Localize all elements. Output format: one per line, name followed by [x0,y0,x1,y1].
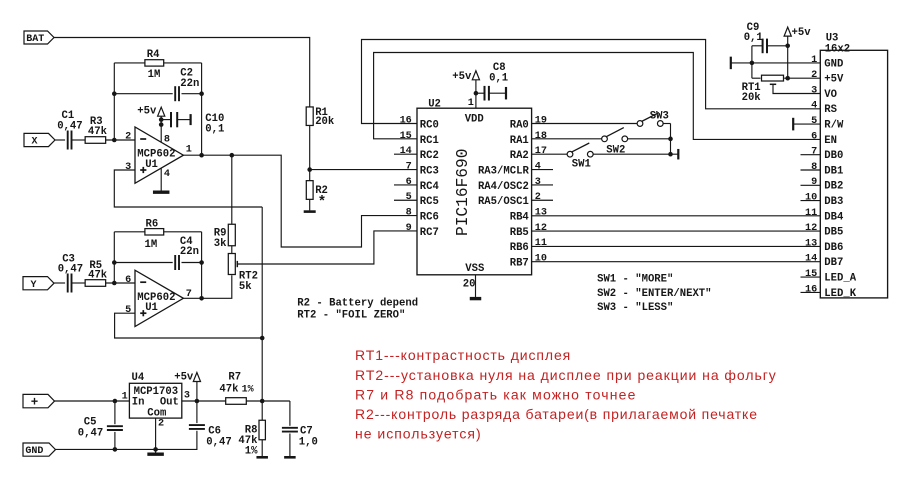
capacitor C3 [67,274,69,293]
wire R6 top branch [114,231,145,233]
wire +5v arrow to out wire [196,382,198,402]
svg-text:DB0: DB0 [824,150,843,162]
node C2 left [112,91,117,96]
node pin5 reference [260,336,265,341]
feedback2 right vertical wire [201,232,203,298]
wire R5 to U1 pin6 [106,282,135,284]
net tag GND [23,443,56,456]
capacitor C4 [174,255,176,270]
svg-text:U4: U4 [132,372,145,384]
node SW1 common [668,152,673,157]
svg-text:20: 20 [463,279,476,291]
capacitor C8 wire [476,92,485,94]
wire RA0 to SW3 [532,123,638,125]
wire R1 to RC3 node [309,126,311,170]
ground rail wire [56,432,197,450]
terminal bar at R/W [792,118,794,131]
svg-text:2: 2 [535,192,541,203]
svg-text:12: 12 [535,223,547,234]
svg-text:2: 2 [125,132,131,143]
svg-text:0,1: 0,1 [489,72,508,84]
wire LCD pin5 R/W [793,123,820,125]
svg-text:R/W: R/W [824,120,844,132]
node C8 tap [474,91,479,96]
net tag BAT [24,31,54,44]
wire R3 to U1 pin2 [106,139,135,141]
capacitor C8 [484,86,486,101]
node C2 right [199,91,204,96]
capacitor C6 [189,424,205,426]
VSS pin 20 wire [475,275,477,298]
resistor R4 [145,60,164,66]
svg-text:14: 14 [805,254,817,265]
svg-text:U2: U2 [428,98,441,110]
svg-text:+5v: +5v [792,27,812,39]
svg-text:VO: VO [824,89,837,101]
wire +5v to VDD pin 1 [475,80,477,108]
svg-text:U1: U1 [145,302,158,314]
svg-text:DB1: DB1 [824,165,843,177]
resistor R5 [85,280,106,287]
svg-text:4: 4 [535,161,541,172]
resistor R8 wires [261,401,263,420]
wire U1a output to RC6 [202,155,417,247]
svg-text:SW3 - "LESS": SW3 - "LESS" [597,302,673,314]
node C5 bottom [113,447,118,452]
wire RA2 to SW1 [532,153,568,155]
net tag X [24,133,55,146]
wire R7 to node [246,400,290,402]
svg-text:RB4: RB4 [510,212,530,224]
svg-text:14: 14 [400,146,412,157]
wire LCD pin2 +5V [788,77,821,79]
svg-text:4: 4 [811,101,817,112]
wire RC0 to LCD RS [362,40,821,124]
wire R9 to RT2 [231,246,233,254]
svg-text:22n: 22n [180,78,199,90]
svg-text:5: 5 [125,305,131,316]
wire C1 to R3 [72,139,85,141]
U4 Com pin wire [155,418,157,453]
svg-text:Com: Com [147,407,166,419]
svg-text:RC6: RC6 [420,212,439,224]
svg-text:не используется): не используется) [355,426,482,442]
svg-text:PIC16F690: PIC16F690 [454,149,472,236]
switch SW1 [567,151,573,157]
microcontroller U2 box [417,108,532,275]
capacitor C10 [170,112,172,127]
resistor R1 [306,107,313,126]
svg-text:1: 1 [186,144,192,155]
svg-text:RT1---контрастность дисплея: RT1---контрастность дисплея [355,347,571,363]
svg-text:R7 и R8 подобрать как можно то: R7 и R8 подобрать как можно точнее [355,386,637,402]
svg-text:RC3: RC3 [420,165,439,177]
capacitor C7 wires [289,401,291,426]
svg-text:22n: 22n [180,246,199,258]
terminal bar at LCD GND [730,57,732,70]
wire Y to C3 [54,282,65,284]
wire C4 branch [114,262,172,264]
svg-text:47k: 47k [88,126,108,138]
resistor R8 [259,420,265,440]
svg-text:11: 11 [535,238,547,249]
svg-text:SW2 - "ENTER/NEXT": SW2 - "ENTER/NEXT" [597,288,711,300]
svg-text:Y: Y [31,280,37,291]
node X feedback junction [112,138,117,143]
net tag Y [23,277,54,290]
svg-text:7: 7 [406,161,412,172]
wire U1b pin 5 reference [115,313,263,338]
svg-text:6: 6 [811,131,817,142]
capacitor C5 vertical wires [114,401,116,424]
svg-text:LED_A: LED_A [824,273,856,285]
wire SW2 to common [628,138,671,140]
svg-text:19: 19 [535,115,547,126]
svg-text:2: 2 [158,419,164,430]
svg-text:11: 11 [805,208,817,219]
wire node to RC3 [310,169,417,171]
svg-text:5: 5 [811,116,817,127]
svg-text:GND: GND [25,446,43,457]
feedback2 left vertical wire [113,232,115,283]
wire LCD pin1 GND [731,62,821,64]
regulator U4 box [129,383,181,418]
node SW2 common [668,137,673,142]
wire node to R2 [309,170,311,182]
svg-text:RS: RS [824,104,837,116]
svg-text:RC5: RC5 [420,196,439,208]
wire C2 branch [114,93,172,95]
node Y feedback junction [112,281,117,286]
wire U1a pin 3 reference [114,170,262,207]
svg-text:6: 6 [406,177,412,188]
svg-text:RT2---установка нуля на диспле: RT2---установка нуля на дисплее при реак… [355,367,777,383]
svg-text:10: 10 [805,193,817,204]
svg-text:1%: 1% [245,445,258,457]
U1a plus sign [140,169,146,171]
svg-text:47k: 47k [88,270,108,282]
svg-text:+: + [31,396,39,410]
wire RC1 to LCD EN [374,53,821,140]
node U1a output [199,153,204,158]
svg-text:7: 7 [811,147,817,158]
svg-text:1: 1 [468,98,474,109]
svg-text:DB3: DB3 [824,196,843,208]
svg-text:U1: U1 [145,159,158,171]
node C9 gnd branch [750,61,755,66]
svg-text:GND: GND [824,58,843,70]
U1a minus sign [140,138,146,140]
svg-text:DB2: DB2 [824,181,843,193]
svg-text:+5V: +5V [824,74,844,86]
svg-text:1M: 1M [145,239,158,251]
svg-text:DB6: DB6 [824,242,843,254]
svg-text:RA4/OSC2: RA4/OSC2 [478,181,529,193]
svg-text:*: * [318,195,327,211]
svg-text:9: 9 [811,177,817,188]
svg-text:2: 2 [811,70,817,81]
svg-text:RA0: RA0 [510,119,529,131]
LCD module U3 box [820,50,887,298]
capacitor C10 wire [161,119,171,121]
node R9 top [230,153,235,158]
wire BAT to R1 top [54,38,310,108]
capacitor C9 [762,39,764,54]
wire U1b output [183,275,231,298]
ground at U1a pin 4 [153,190,170,193]
svg-text:18: 18 [535,131,547,142]
feedback left vertical wire [113,63,115,140]
resistor R6 [145,229,164,235]
svg-text:1,0: 1,0 [299,437,318,449]
wire SW1 to common bar [593,153,678,155]
node C4 left [112,260,117,265]
svg-text:0,47: 0,47 [206,436,231,448]
wire SW3 to common [663,123,670,125]
node +5V pin2 [785,76,790,81]
svg-text:SW3: SW3 [650,110,669,122]
svg-text:16x2: 16x2 [825,43,850,55]
ground at R2 [304,210,316,213]
svg-text:47k: 47k [219,384,239,396]
node Com crossing [153,447,158,452]
svg-text:DB4: DB4 [824,211,844,223]
resistor R9 [228,224,235,246]
svg-text:R2 - Battery depend: R2 - Battery depend [297,297,418,309]
RT2 wiper bar [236,261,238,267]
svg-text:RT2 - "FOIL ZERO": RT2 - "FOIL ZERO" [297,310,405,322]
svg-text:RB6: RB6 [510,242,529,254]
svg-text:1M: 1M [148,69,161,81]
svg-text:8: 8 [811,162,817,173]
resistor R7 [226,398,247,405]
svg-text:R4: R4 [147,49,160,61]
svg-text:8: 8 [406,208,412,219]
wire U1a pin 4 to ground [160,168,162,191]
svg-text:BAT: BAT [26,34,44,45]
ground at VSS [470,297,482,300]
wire RT1 wiper to LCD VO [773,84,820,93]
RT1 wiper bar [770,83,776,85]
svg-text:13: 13 [805,238,817,249]
svg-text:9: 9 [406,223,412,234]
svg-text:10: 10 [535,254,547,265]
op-amp U1b triangle [135,270,183,326]
node C10 tap [159,117,164,122]
svg-text:0,1: 0,1 [744,32,763,44]
svg-text:SW1 - "MORE": SW1 - "MORE" [597,274,673,286]
svg-text:DB5: DB5 [824,227,843,239]
svg-text:VSS: VSS [465,263,485,275]
svg-text:0,47: 0,47 [57,121,82,133]
wire X to C1 [55,139,65,141]
svg-text:SW1: SW1 [572,159,591,171]
svg-text:RA1: RA1 [510,135,529,147]
capacitor C2 [174,86,176,101]
node R1-R2 [307,167,312,172]
svg-text:LED_K: LED_K [824,288,856,300]
svg-text:3: 3 [535,177,541,188]
terminal bar at C10 [190,114,192,125]
capacitor C1 [67,131,69,150]
svg-text:+5v: +5v [452,71,472,83]
capacitor C5 [107,425,123,427]
svg-text:RC0: RC0 [420,119,439,131]
capacitor C6 wires [196,401,198,423]
svg-text:1: 1 [811,55,817,66]
node reference divider [260,399,265,404]
wire +5v to pin 8 [160,116,162,142]
svg-text:3: 3 [184,391,190,402]
svg-text:X: X [32,137,38,148]
capacitor C7 [282,427,298,429]
wire R4 top branch [114,62,145,64]
+5v symbol at LCD [784,27,791,36]
node U1b output [199,296,204,301]
wire RB4 to DB4 [532,215,821,217]
node pin8 wire [159,122,164,127]
op-amp U1a triangle [135,127,183,183]
svg-text:+5v: +5v [137,106,157,118]
feedback right vertical wire [201,63,203,155]
net tag + [23,394,55,407]
svg-text:DB7: DB7 [824,257,843,269]
svg-text:VDD: VDD [465,114,484,126]
svg-text:0,1: 0,1 [205,124,224,136]
capacitor C9 wire [752,45,763,47]
svg-text:6: 6 [125,275,131,286]
wire node to R9 [231,155,233,224]
svg-text:RC7: RC7 [420,227,439,239]
svg-text:3: 3 [811,85,817,96]
svg-text:RA2: RA2 [510,150,529,162]
wire U4 Out to R7 [182,400,226,402]
switch common vertical wire [670,124,672,155]
svg-text:RC2: RC2 [420,150,439,162]
svg-text:R7: R7 [228,372,241,384]
svg-text:RB5: RB5 [510,227,529,239]
wire C3 to R5 [72,282,85,284]
node C5 top [113,399,118,404]
svg-text:20k: 20k [742,92,762,104]
wire RB7 to DB7 [532,261,821,263]
svg-text:R2---контроль разряда батареи(: R2---контроль разряда батареи(в прилагае… [355,406,758,422]
resistor R2 [306,181,313,200]
trimmer RT1 [762,75,784,81]
ground at R8 [256,456,268,459]
ground at U4 Com [147,453,164,456]
svg-text:RB7: RB7 [510,258,529,270]
svg-text:EN: EN [824,135,837,147]
switch SW3 [637,121,643,127]
wire RA1 to SW2 [532,138,602,140]
svg-text:15: 15 [400,131,412,142]
svg-text:17: 17 [535,146,547,157]
svg-text:0,47: 0,47 [78,427,103,439]
wire RT2 wiper to RC7 [237,231,417,264]
ground at C7 [284,456,296,459]
terminal bar at switches [677,149,679,160]
svg-text:In: In [132,396,145,408]
svg-text:16: 16 [400,115,412,126]
terminal bar at C8 [505,87,507,100]
svg-text:R6: R6 [146,219,159,231]
svg-text:RA3/MCLR: RA3/MCLR [478,165,530,177]
svg-text:5: 5 [406,192,412,203]
svg-text:15: 15 [805,269,817,280]
svg-text:1%: 1% [242,385,254,396]
wire R2 to ground [309,199,311,210]
svg-text:0,47: 0,47 [58,264,83,276]
svg-text:RA5/OSC1: RA5/OSC1 [478,196,529,208]
trimmer RT2 [228,254,235,275]
wire +5v to LCD pin2 [787,36,789,78]
svg-text:3: 3 [125,162,131,173]
svg-text:20k: 20k [315,116,335,128]
svg-text:4: 4 [164,169,170,180]
node C9 right [785,44,790,49]
wire + to U4 In [55,400,130,402]
wire U1a output [183,154,201,156]
node U4 out [195,399,200,404]
resistor R3 [85,137,106,144]
svg-text:3k: 3k [214,238,227,250]
U1b minus sign [140,281,146,283]
svg-text:+5v: +5v [174,371,194,383]
reference vertical wire [261,207,263,401]
svg-text:1: 1 [122,392,128,403]
switch SW2 [602,136,608,142]
svg-text:5k: 5k [239,281,252,293]
svg-text:SW2: SW2 [606,145,625,157]
svg-text:C7: C7 [300,425,313,437]
svg-text:8: 8 [164,134,170,145]
wire RB6 to DB6 [532,245,821,247]
C9 left vertical wire [751,46,753,78]
node C4 right [199,260,204,265]
svg-text:16: 16 [805,284,817,295]
svg-text:RC1: RC1 [420,135,439,147]
wire RB5 to DB5 [532,230,821,232]
U1b plus sign [140,312,146,314]
svg-text:12: 12 [805,223,817,234]
svg-text:RC4: RC4 [420,181,440,193]
svg-text:13: 13 [535,208,547,219]
